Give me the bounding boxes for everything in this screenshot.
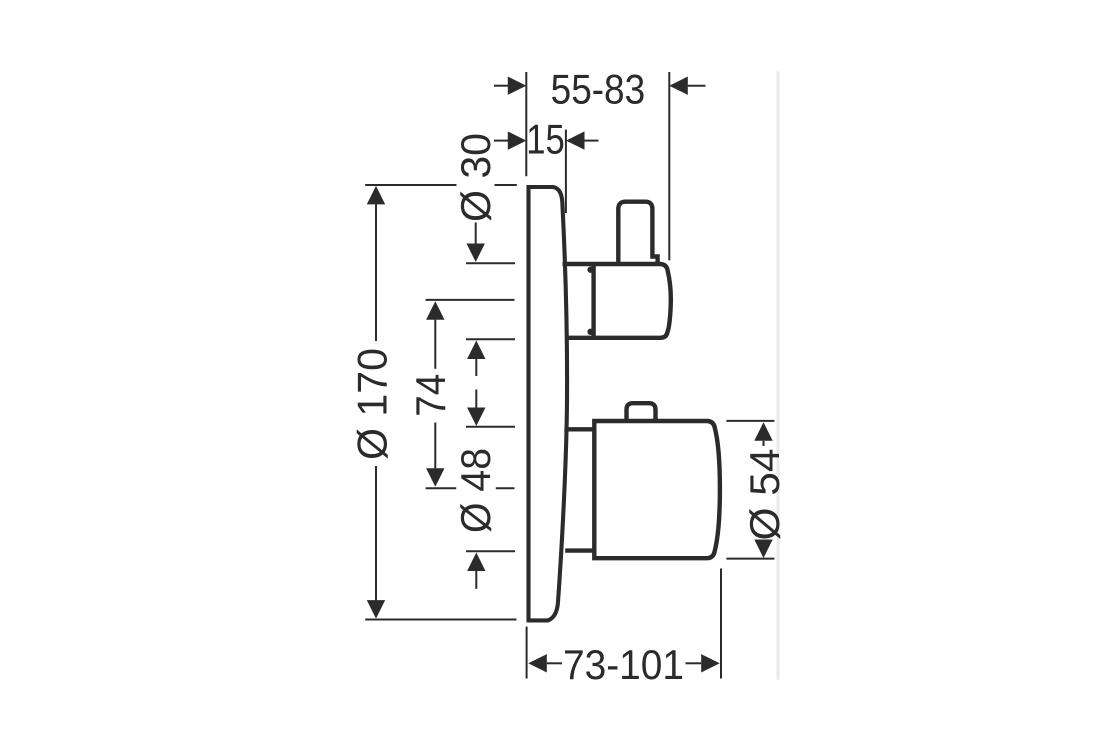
svg-text:Ø 170: Ø 170 — [349, 348, 396, 460]
lower sleeve bottom edge — [565, 548, 594, 552]
lower sleeve top edge — [564, 427, 594, 431]
scrollbar track line — [777, 71, 780, 680]
svg-text:55-83: 55-83 — [551, 65, 646, 112]
dim D54 top tick — [726, 420, 774, 422]
svg-text:74: 74 — [407, 374, 454, 417]
escutcheon plate (side view) — [529, 187, 568, 620]
dim D48 bottom tick — [466, 550, 515, 552]
dim 15 right arrow — [566, 131, 585, 149]
dim 15 left arrow — [494, 140, 508, 142]
dim D30 top tick — [466, 262, 515, 264]
dim D170 bottom tick — [365, 619, 516, 621]
svg-text:Ø 48: Ø 48 — [452, 448, 499, 533]
svg-text:Ø 30: Ø 30 — [452, 133, 499, 222]
upper divider notch bottom — [587, 329, 593, 335]
dim 73-101 right arrow — [701, 654, 720, 672]
upper block divider — [591, 263, 595, 339]
dim D54 bottom tick — [726, 558, 774, 560]
dim D48 down arrow above tick — [475, 390, 477, 409]
dim 73-101 left extension line — [526, 627, 528, 679]
dim 74 line with arrows — [426, 301, 444, 320]
dim 73-101 left arrow — [528, 654, 547, 672]
dim 55-83 left extension line — [525, 72, 527, 176]
dim 15 right extension line — [565, 130, 567, 213]
svg-text:15: 15 — [526, 116, 565, 163]
dim D30 up arrow below tick — [467, 341, 485, 360]
dim D30 bottom tick — [466, 338, 515, 340]
dim D170 line with arrows — [367, 186, 385, 205]
dim D54 up arrow — [754, 422, 772, 441]
dim D30 leader arrow down — [475, 223, 477, 246]
dim D48 up arrow below tick — [467, 553, 485, 572]
dim 73-101 right extension line — [720, 569, 722, 679]
svg-text:73-101: 73-101 — [563, 641, 684, 688]
dim D170 top tick — [365, 184, 456, 186]
dim D54 down arrow — [754, 540, 772, 559]
dim 55-83 right extension line — [668, 72, 670, 260]
upper divider notch top — [587, 267, 593, 273]
dim 74 top tick — [426, 299, 515, 301]
dim 55-83 right arrow — [669, 77, 688, 95]
svg-text:Ø 54: Ø 54 — [741, 449, 788, 541]
knob stem bump — [627, 403, 656, 420]
dim D48 top tick — [466, 426, 515, 428]
dim 74 bottom tick — [426, 487, 457, 489]
thermostat knob — [594, 421, 720, 558]
upper valve stem — [618, 202, 657, 263]
upper stop-valve block — [563, 264, 671, 338]
dim 55-83 left arrow — [494, 85, 508, 87]
